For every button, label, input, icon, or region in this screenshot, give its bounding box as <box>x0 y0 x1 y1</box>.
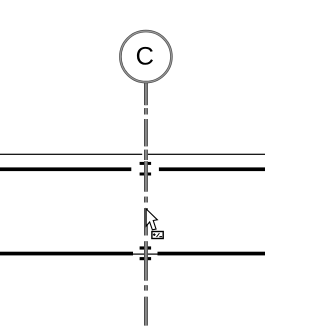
plus <box>153 234 156 235</box>
wire: grid dash 1 (stem below bubble) <box>144 83 148 105</box>
wall W2 (lower thick line, left segment) <box>0 252 133 256</box>
wall W1 (upper thick line, left segment) <box>0 167 131 171</box>
wire: grid dot 2 <box>144 108 148 114</box>
wall W2 (lower thick line, right segment) <box>158 252 266 256</box>
grid label C <box>137 47 153 65</box>
tick mark T2 (below upper wall) <box>140 173 152 176</box>
tick mark T1 (above upper wall) <box>140 162 152 165</box>
wire: grid dash 10 (bottom) <box>144 297 148 326</box>
tick mark T4 (below lower wall) <box>140 257 152 260</box>
wire: thin reference line (upper, right segment) <box>148 154 265 155</box>
slash <box>157 233 160 237</box>
minus <box>159 236 162 237</box>
cursor (arrow pointer) <box>146 209 157 230</box>
tick mark T3 (above lower wall) <box>140 246 152 249</box>
wire: grid dash 7 (behind cursor) <box>144 208 148 235</box>
wire: grid dot 9 <box>144 285 148 290</box>
wire: grid dash 3 <box>144 119 148 146</box>
wall W1 (upper thick line, right segment) <box>159 167 265 171</box>
grid line C: dash-dot segments (gray, dark edges with lighter core) <box>144 83 148 326</box>
wire: thin reference line (upper, left segment) <box>0 154 142 155</box>
wire: grid dash 8 (through lower wall ticks) <box>144 241 148 281</box>
wire: grid dot 6 <box>144 197 148 203</box>
badge icon (+/- box) <box>152 232 163 239</box>
wire: grid dot 4 (crossing thin line) <box>144 150 148 160</box>
grid bubble (circle) <box>120 31 171 82</box>
wire: grid dash 5 (through upper wall ticks) <box>144 161 148 192</box>
wire: thin bridge line across lower wall gap <box>133 254 158 255</box>
